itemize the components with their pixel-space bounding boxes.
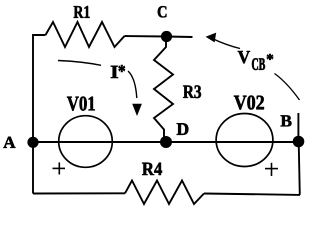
plus sign V02 <box>265 163 278 176</box>
wire bottom from A-side to R4 <box>33 192 125 194</box>
resistor R1 <box>46 22 125 47</box>
resistor R4 <box>125 181 204 205</box>
resistor R3 <box>154 40 173 138</box>
plus sign V01 <box>53 162 66 174</box>
label CBsub <box>252 58 265 70</box>
wire middle horizontal A to B <box>33 141 298 143</box>
label R1 <box>74 6 90 18</box>
wire right vertical below B <box>299 142 300 195</box>
label VcbAst <box>267 54 273 60</box>
label IstarAst <box>119 65 125 72</box>
label R3 <box>183 85 201 98</box>
node D <box>160 136 172 148</box>
label V02 <box>234 96 264 110</box>
label A <box>3 137 15 148</box>
node A <box>27 137 38 148</box>
annotation arrow I* leader left <box>58 61 101 66</box>
annotation arrow VCB tail <box>213 39 241 49</box>
node B <box>293 136 305 148</box>
node C <box>161 31 172 42</box>
annotation curve VCB lower <box>275 74 300 101</box>
arrowhead VCB <box>206 33 217 43</box>
label V01 <box>67 97 95 111</box>
label D <box>177 123 189 135</box>
wire bottom from R4 to B corner <box>204 194 300 195</box>
label B <box>281 115 292 126</box>
label R4 <box>142 163 162 175</box>
arrowhead I* <box>132 104 142 116</box>
label Vcb <box>238 51 250 63</box>
annotation arrow I* curve down <box>128 71 137 98</box>
wire left vertical A-side <box>33 35 46 194</box>
label C <box>158 6 167 17</box>
wire top from R1 to open end past C <box>125 36 193 37</box>
label Istar <box>111 66 118 78</box>
source V01 <box>59 116 113 168</box>
wire stub above B <box>297 113 299 140</box>
source V02 <box>216 114 273 167</box>
